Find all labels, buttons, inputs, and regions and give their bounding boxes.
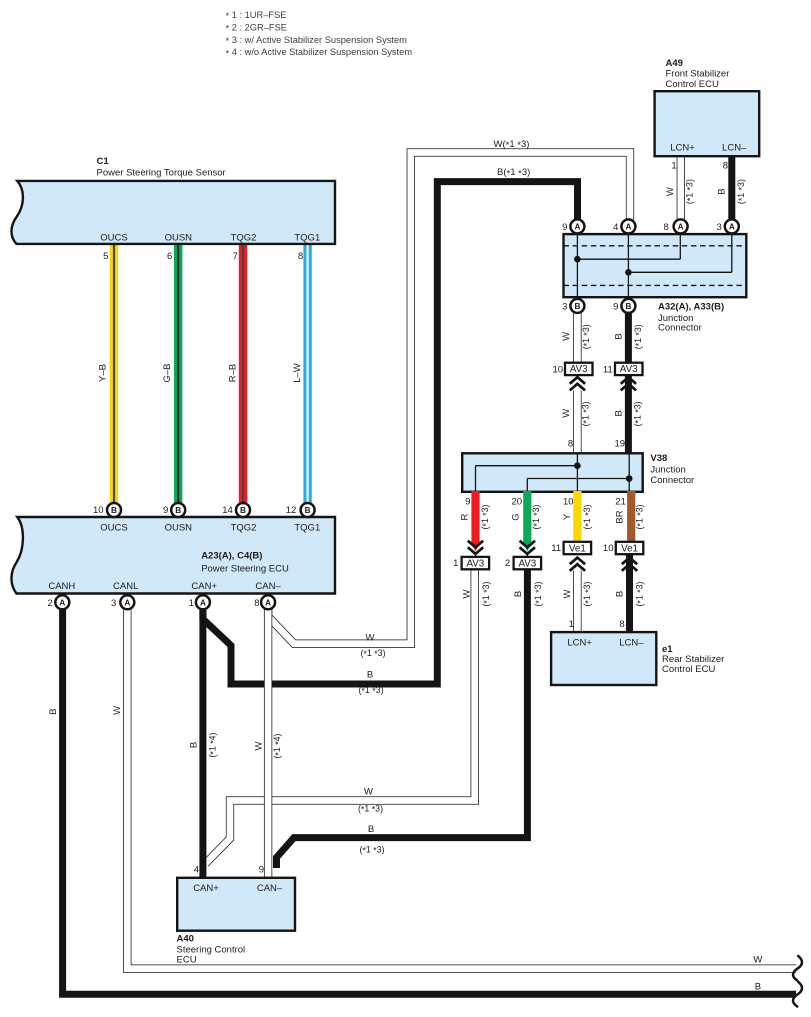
svg-text:(*1 *3): (*1 *3) <box>635 504 646 529</box>
svg-text:R: R <box>459 513 470 520</box>
svg-text:A40: A40 <box>177 934 194 945</box>
svg-text:A: A <box>625 223 631 232</box>
svg-text:10: 10 <box>603 543 614 554</box>
svg-text:8: 8 <box>723 160 728 171</box>
svg-text:B: B <box>367 670 373 681</box>
svg-text:A23(A), C4(B): A23(A), C4(B) <box>201 551 262 562</box>
svg-text:A: A <box>200 598 206 607</box>
svg-text:Ve1: Ve1 <box>569 543 586 554</box>
svg-text:5: 5 <box>103 251 108 262</box>
svg-text:BR: BR <box>615 510 626 523</box>
svg-text:A: A <box>59 598 65 607</box>
svg-text:B: B <box>305 506 311 515</box>
svg-text:(*1 *3): (*1 *3) <box>480 504 491 529</box>
svg-text:* 4 : w/o Active Stabilizer Su: * 4 : w/o Active Stabilizer Suspension S… <box>226 47 413 58</box>
svg-text:8: 8 <box>298 251 303 262</box>
svg-text:1: 1 <box>569 619 574 630</box>
svg-text:B: B <box>615 591 626 597</box>
svg-text:AV3: AV3 <box>570 364 588 375</box>
svg-text:10: 10 <box>563 496 574 507</box>
svg-text:8: 8 <box>664 222 669 233</box>
svg-text:B: B <box>175 506 181 515</box>
svg-text:OUSN: OUSN <box>165 233 193 244</box>
svg-text:B: B <box>240 506 246 515</box>
svg-text:9: 9 <box>163 505 168 516</box>
svg-text:Y: Y <box>562 513 573 520</box>
svg-text:(*1 *3): (*1 *3) <box>358 685 383 696</box>
svg-text:(*1 *3): (*1 *3) <box>581 324 592 349</box>
svg-text:A: A <box>729 223 735 232</box>
svg-text:LCN+: LCN+ <box>670 142 695 153</box>
svg-text:W: W <box>253 741 264 750</box>
svg-text:G–B: G–B <box>162 363 173 382</box>
svg-text:CANL: CANL <box>113 581 138 592</box>
svg-text:B: B <box>755 982 761 993</box>
svg-text:TQG1: TQG1 <box>294 233 320 244</box>
svg-text:6: 6 <box>167 251 172 262</box>
svg-text:10: 10 <box>553 364 564 375</box>
svg-text:(*1 *3): (*1 *3) <box>582 581 593 606</box>
svg-text:CANH: CANH <box>48 581 75 592</box>
svg-text:CAN–: CAN– <box>255 581 281 592</box>
svg-text:W: W <box>112 706 123 715</box>
svg-text:(*1 *3): (*1 *3) <box>736 179 747 204</box>
svg-text:1: 1 <box>671 160 676 171</box>
svg-text:Connector: Connector <box>658 323 702 334</box>
svg-text:9: 9 <box>465 496 470 507</box>
svg-text:14: 14 <box>222 505 233 516</box>
svg-text:3: 3 <box>562 301 567 312</box>
svg-text:4: 4 <box>613 222 618 233</box>
svg-text:Connector: Connector <box>650 475 694 486</box>
svg-text:Junction: Junction <box>650 464 685 475</box>
svg-text:* 2 : 2GR–FSE: * 2 : 2GR–FSE <box>226 22 288 33</box>
svg-text:* 1 : 1UR–FSE: * 1 : 1UR–FSE <box>226 10 287 21</box>
svg-text:A49: A49 <box>666 58 683 69</box>
svg-text:(*1 *3): (*1 *3) <box>581 401 592 426</box>
svg-text:Control ECU: Control ECU <box>666 79 719 90</box>
svg-text:B: B <box>48 709 59 715</box>
svg-text:7: 7 <box>233 251 238 262</box>
svg-text:Power Steering ECU: Power Steering ECU <box>201 563 289 574</box>
svg-text:(*1 *3): (*1 *3) <box>633 401 644 426</box>
svg-text:A: A <box>574 223 580 232</box>
svg-text:Control ECU: Control ECU <box>662 664 715 675</box>
svg-text:(*1 *3): (*1 *3) <box>359 845 384 856</box>
svg-text:OUCS: OUCS <box>100 523 127 534</box>
svg-text:W: W <box>561 332 572 341</box>
svg-text:1: 1 <box>453 558 458 569</box>
svg-text:B(*1 *3): B(*1 *3) <box>497 167 530 179</box>
svg-text:Ve1: Ve1 <box>621 543 638 554</box>
svg-text:B: B <box>716 188 727 194</box>
svg-text:(*1 *3): (*1 *3) <box>633 324 644 349</box>
svg-text:2: 2 <box>505 558 510 569</box>
svg-text:W: W <box>366 633 375 644</box>
svg-text:LCN–: LCN– <box>722 142 747 153</box>
svg-text:4: 4 <box>194 865 199 876</box>
svg-text:B: B <box>574 302 580 311</box>
svg-text:CAN+: CAN+ <box>193 883 219 894</box>
svg-text:A32(A), A33(B): A32(A), A33(B) <box>658 302 724 313</box>
svg-text:B: B <box>513 591 524 597</box>
svg-text:9: 9 <box>613 301 618 312</box>
svg-text:B: B <box>613 333 624 339</box>
svg-text:(*1 *3): (*1 *3) <box>360 648 385 659</box>
svg-text:11: 11 <box>551 543 561 554</box>
svg-text:8: 8 <box>254 598 259 609</box>
svg-text:9: 9 <box>562 222 567 233</box>
svg-text:10: 10 <box>93 505 104 516</box>
svg-text:19: 19 <box>615 439 626 450</box>
svg-text:TQG1: TQG1 <box>294 523 320 534</box>
svg-text:(*1 *3): (*1 *3) <box>358 804 383 815</box>
svg-text:(*1 *3): (*1 *3) <box>685 179 696 204</box>
svg-text:W: W <box>461 589 472 598</box>
svg-text:8: 8 <box>619 619 624 630</box>
svg-text:Power Steering Torque Sensor: Power Steering Torque Sensor <box>97 168 226 179</box>
svg-text:3: 3 <box>717 222 722 233</box>
svg-text:CAN+: CAN+ <box>191 581 217 592</box>
svg-text:B: B <box>625 302 631 311</box>
svg-text:V38: V38 <box>650 453 667 464</box>
svg-text:12: 12 <box>286 505 297 516</box>
svg-text:(*1 *3): (*1 *3) <box>533 581 544 606</box>
svg-text:(*1 *4): (*1 *4) <box>272 733 283 758</box>
svg-text:(*1 *4): (*1 *4) <box>207 732 218 757</box>
svg-text:B: B <box>368 824 374 835</box>
svg-text:Y–B: Y–B <box>98 364 109 382</box>
svg-text:9: 9 <box>259 865 264 876</box>
svg-text:R–B: R–B <box>227 364 238 382</box>
svg-text:(*1 *3): (*1 *3) <box>635 581 646 606</box>
svg-text:11: 11 <box>603 364 613 375</box>
svg-text:* 3 : w/ Active Stabilizer Sus: * 3 : w/ Active Stabilizer Suspension Sy… <box>226 35 408 46</box>
svg-text:AV3: AV3 <box>620 364 638 375</box>
svg-text:20: 20 <box>512 496 523 507</box>
svg-text:OUCS: OUCS <box>100 233 127 244</box>
svg-text:W: W <box>364 786 373 797</box>
svg-text:AV3: AV3 <box>466 558 484 569</box>
svg-text:21: 21 <box>615 496 626 507</box>
svg-text:CAN–: CAN– <box>257 883 283 894</box>
svg-text:2: 2 <box>47 598 52 609</box>
svg-text:3: 3 <box>111 598 116 609</box>
svg-text:(*1 *3): (*1 *3) <box>481 581 492 606</box>
svg-text:OUSN: OUSN <box>165 523 193 534</box>
svg-text:AV3: AV3 <box>518 558 536 569</box>
svg-text:G: G <box>511 513 522 520</box>
svg-text:LCN–: LCN– <box>619 638 644 649</box>
svg-text:B: B <box>111 506 117 515</box>
svg-text:L–W: L–W <box>292 363 303 383</box>
svg-text:A: A <box>124 598 130 607</box>
svg-text:B: B <box>613 410 624 416</box>
svg-text:A: A <box>678 223 684 232</box>
svg-text:C1: C1 <box>97 156 110 167</box>
svg-text:1: 1 <box>189 598 194 609</box>
svg-text:W(*1 *3): W(*1 *3) <box>494 139 530 151</box>
svg-text:(*1 *3): (*1 *3) <box>582 504 593 529</box>
svg-text:TQG2: TQG2 <box>231 233 257 244</box>
svg-text:W: W <box>665 187 676 196</box>
svg-text:LCN+: LCN+ <box>567 638 592 649</box>
svg-text:A: A <box>265 598 271 607</box>
svg-text:W: W <box>561 409 572 418</box>
svg-text:ECU: ECU <box>177 954 197 965</box>
svg-text:TQG2: TQG2 <box>231 523 257 534</box>
svg-text:W: W <box>753 955 762 966</box>
svg-text:8: 8 <box>568 439 573 450</box>
svg-text:W: W <box>562 589 573 598</box>
svg-text:B: B <box>189 742 200 748</box>
svg-text:(*1 *3): (*1 *3) <box>531 504 542 529</box>
